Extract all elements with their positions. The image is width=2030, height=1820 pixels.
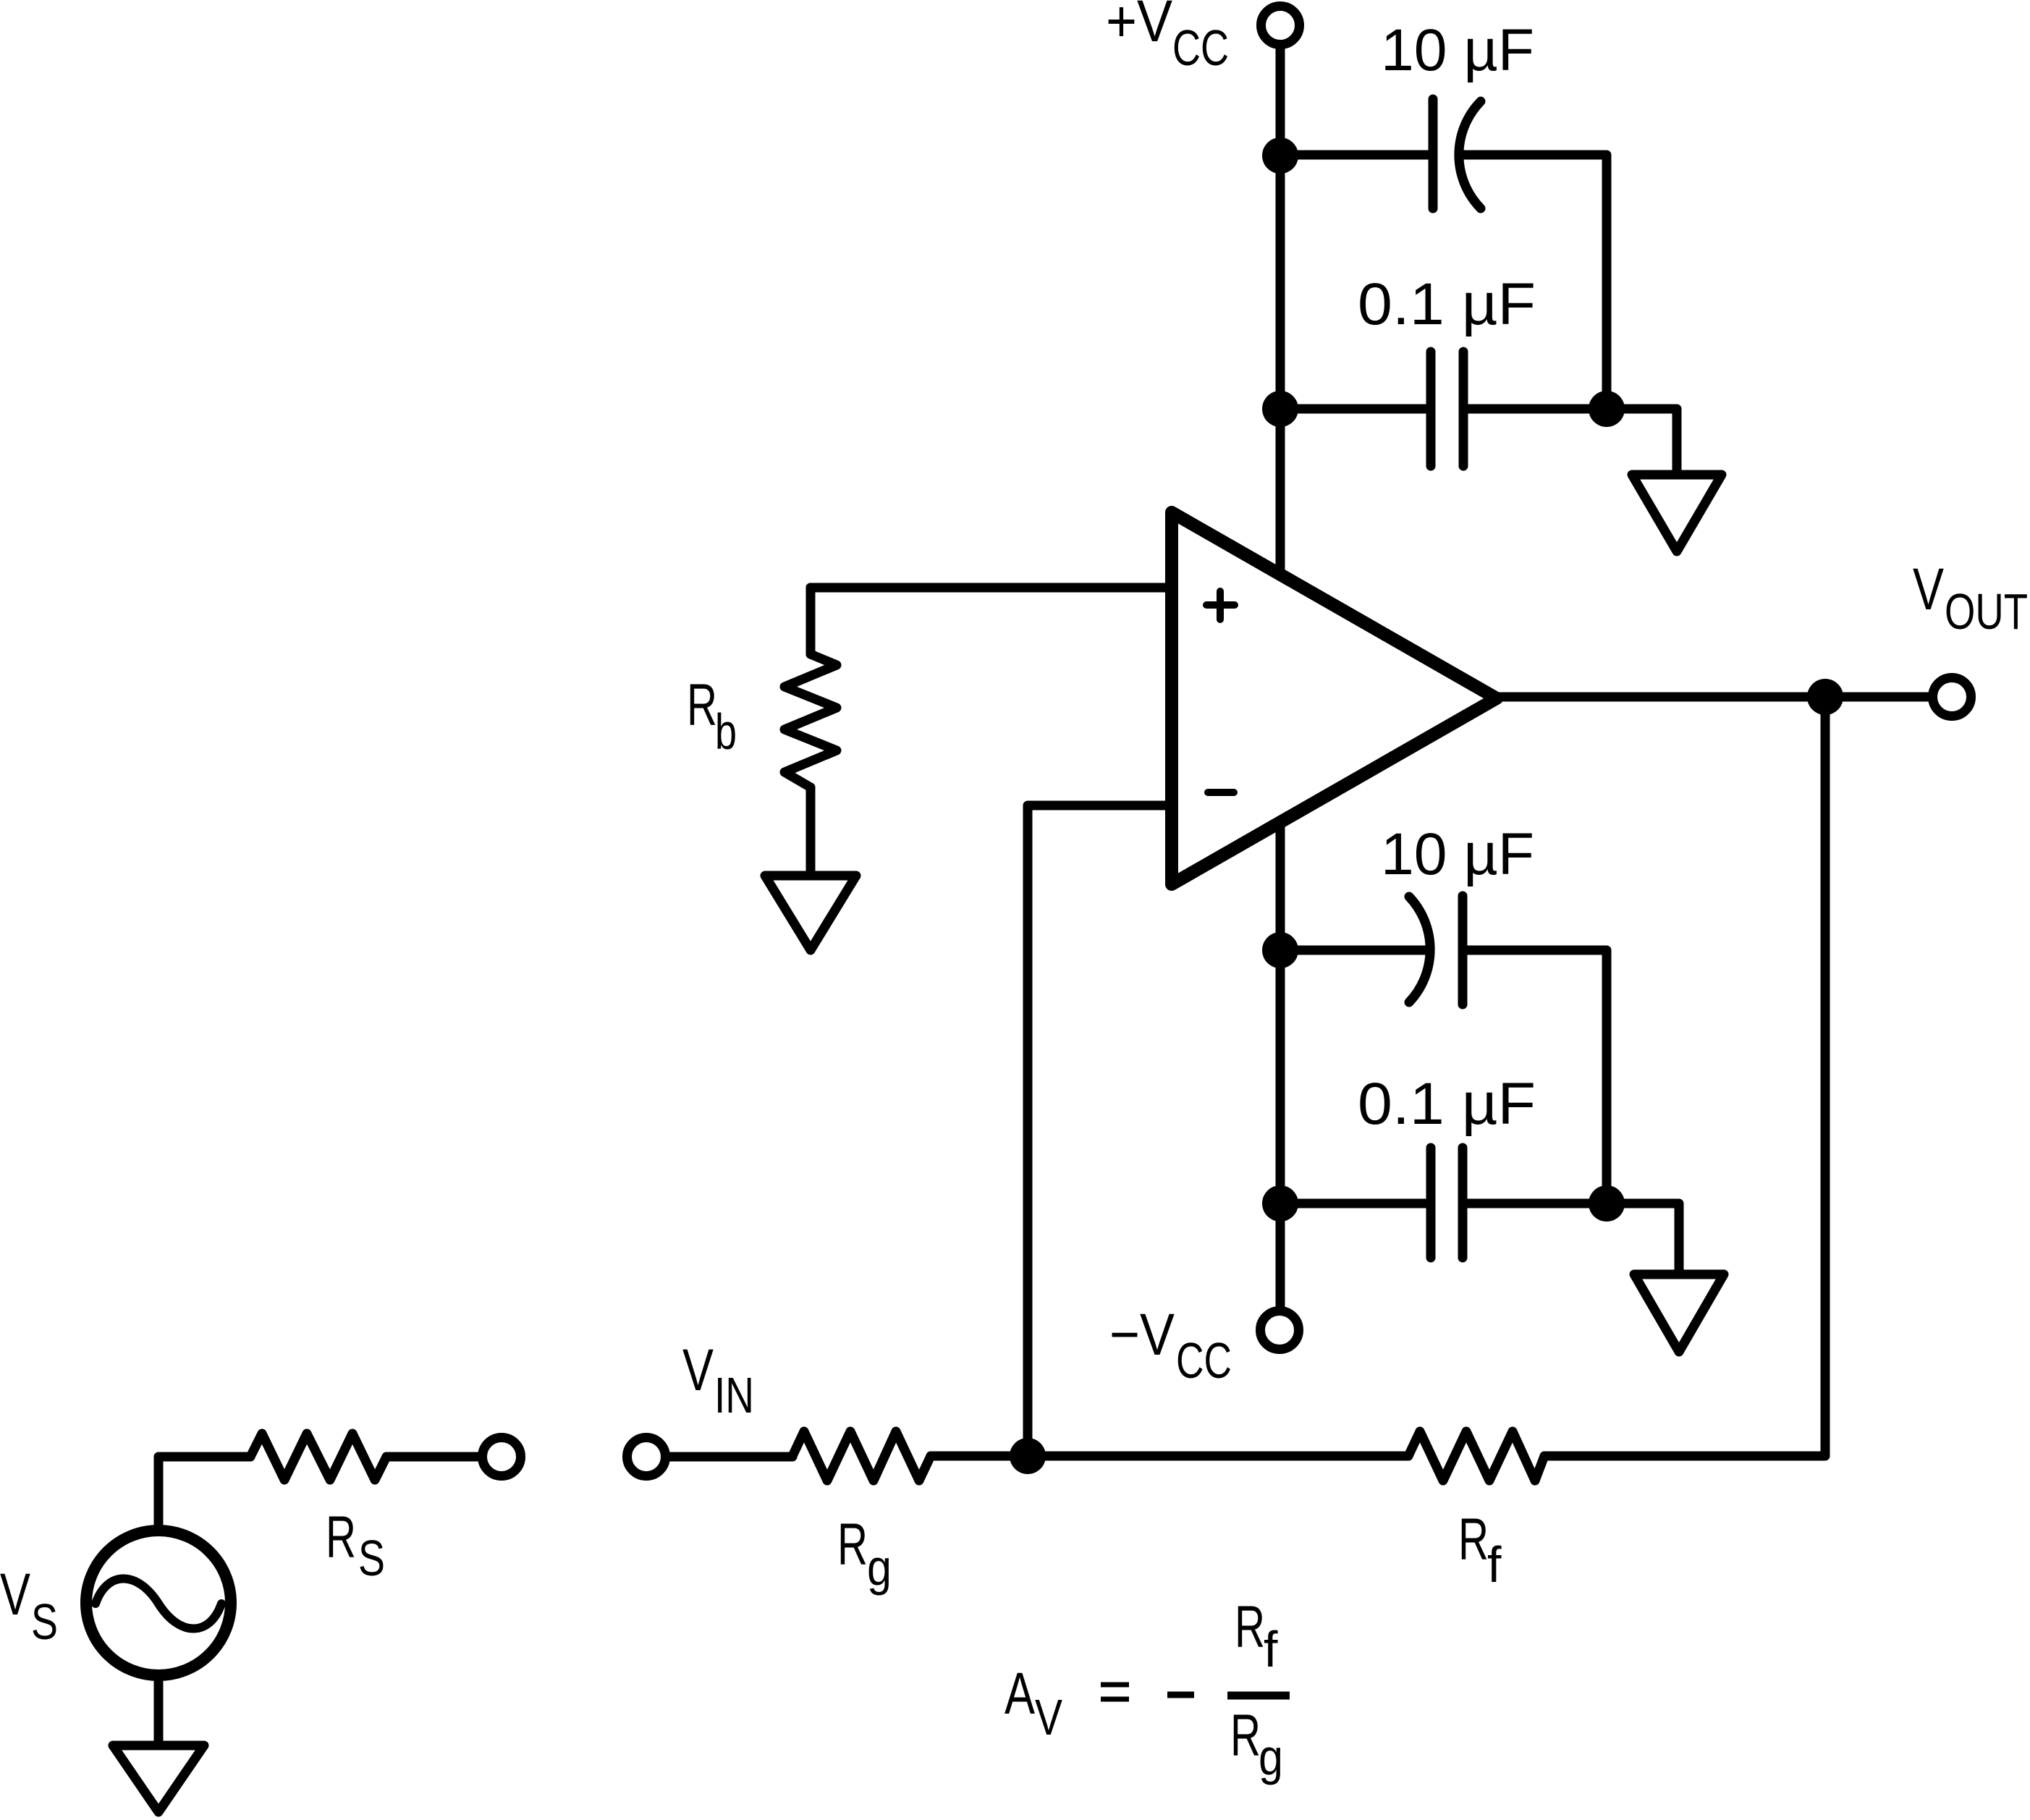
svg-text:S: S — [31, 1593, 58, 1650]
svg-text:R: R — [326, 1504, 356, 1570]
svg-text:R: R — [1235, 1594, 1265, 1660]
svg-text:10 µF: 10 µF — [1381, 821, 1534, 887]
svg-text:V: V — [1035, 1689, 1062, 1745]
svg-text:+V: +V — [1106, 0, 1172, 54]
svg-text:0.1 µF: 0.1 µF — [1358, 271, 1536, 337]
svg-text:−V: −V — [1109, 1302, 1175, 1368]
svg-text:CC: CC — [1176, 1332, 1232, 1389]
svg-text:V: V — [1913, 556, 1944, 622]
svg-text:V: V — [682, 1337, 714, 1403]
svg-text:f: f — [1264, 1621, 1278, 1677]
svg-text:10 µF: 10 µF — [1381, 17, 1534, 83]
svg-text:CC: CC — [1172, 20, 1229, 76]
svg-text:R: R — [1458, 1507, 1489, 1573]
svg-text:g: g — [867, 1539, 892, 1596]
svg-text:0.1 µF: 0.1 µF — [1358, 1071, 1536, 1137]
svg-text:b: b — [715, 703, 737, 760]
svg-text:V: V — [0, 1562, 30, 1628]
svg-text:OUT: OUT — [1945, 583, 2028, 640]
svg-text:S: S — [358, 1530, 385, 1586]
svg-text:g: g — [1259, 1729, 1283, 1785]
svg-text:R: R — [687, 672, 717, 738]
svg-text:f: f — [1487, 1536, 1502, 1593]
svg-text:R: R — [1230, 1703, 1261, 1769]
svg-text:R: R — [837, 1512, 868, 1578]
svg-text:IN: IN — [714, 1367, 754, 1423]
svg-text:A: A — [1005, 1661, 1035, 1727]
